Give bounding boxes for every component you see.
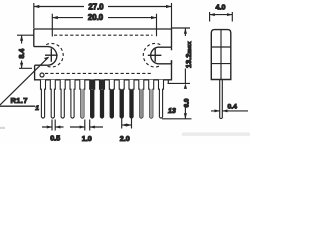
hidden hole circle right (dashed) bbox=[143, 43, 160, 67]
pin 8 bbox=[109, 80, 114, 118]
svg-text:20.0: 20.0 bbox=[88, 13, 104, 22]
pin 10 bbox=[129, 80, 134, 118]
side view pin bbox=[220, 80, 223, 119]
pin 5 bbox=[80, 80, 85, 118]
label 27.0 bbox=[88, 2, 104, 11]
body outline front view bbox=[34, 29, 172, 80]
pin 7 bbox=[100, 80, 105, 118]
svg-text:27.0: 27.0 bbox=[88, 2, 104, 11]
svg-text:13.2max: 13.2max bbox=[186, 41, 193, 68]
pin 1 bbox=[41, 80, 46, 118]
heatsink hidden bottom line (dashed) bbox=[45, 72, 153, 74]
svg-text:6.0: 6.0 bbox=[184, 98, 191, 107]
label 6.0 bbox=[184, 98, 191, 107]
svg-text:0.4: 0.4 bbox=[228, 104, 238, 111]
pin 11 bbox=[139, 80, 144, 118]
faint scan smudge bbox=[0, 127, 250, 136]
label 1.0 bbox=[82, 134, 92, 143]
side view center line bbox=[220, 30, 222, 80]
svg-text:8.4: 8.4 bbox=[19, 49, 26, 59]
pin 3 bbox=[60, 80, 65, 118]
svg-text:13: 13 bbox=[168, 108, 176, 115]
label 8.4 bbox=[19, 49, 26, 59]
label 13.2max bbox=[186, 41, 193, 68]
side view slot top line bbox=[211, 46, 231, 48]
pin 2 bbox=[50, 80, 55, 118]
hole center cross right bbox=[148, 49, 162, 62]
pin 1 label bbox=[35, 105, 39, 112]
right mounting slot bbox=[151, 47, 172, 64]
label 4.0 bbox=[216, 3, 226, 12]
hole center cross left bbox=[45, 49, 58, 62]
side view slot bottom line bbox=[211, 63, 231, 65]
dimension 27.0 bbox=[34, 3, 172, 29]
pin 9 bbox=[119, 80, 124, 118]
dimension 13.2 max bbox=[172, 28, 191, 119]
heatsink hidden top line (dashed) bbox=[54, 34, 153, 36]
dimension 1.0 bbox=[70, 120, 103, 131]
svg-text:0.5: 0.5 bbox=[50, 134, 60, 143]
pin 4 bbox=[70, 80, 75, 118]
dimension 0.4 bbox=[211, 109, 248, 112]
dimension 0.5 bbox=[42, 120, 64, 131]
label 0.4 bbox=[228, 104, 238, 111]
dimension 4.0 bbox=[210, 12, 233, 22]
pin 6 bbox=[90, 80, 95, 118]
pin 13 label bbox=[168, 108, 176, 115]
pin 12 bbox=[149, 80, 154, 118]
dimension 6.0 bbox=[162, 80, 192, 119]
svg-text:4.0: 4.0 bbox=[216, 3, 226, 12]
dimension 8.4 bbox=[17, 35, 34, 68]
pin 13 bbox=[159, 80, 164, 118]
svg-text:2.0: 2.0 bbox=[120, 134, 130, 143]
svg-text:1.0: 1.0 bbox=[82, 134, 92, 143]
dimension 2.0 bbox=[122, 117, 132, 129]
label 2.0 bbox=[120, 134, 130, 143]
label R1.7 with leader bbox=[0, 57, 49, 106]
label 0.5 bbox=[50, 134, 60, 143]
side view body bbox=[211, 30, 231, 80]
left mounting slot bbox=[34, 47, 57, 66]
small index circle bbox=[40, 73, 44, 77]
hidden hole circle left (dashed) bbox=[46, 43, 63, 67]
dimension 20.0 bbox=[52, 14, 156, 37]
svg-text:1: 1 bbox=[35, 105, 39, 112]
svg-text:R1.7: R1.7 bbox=[11, 96, 28, 105]
label 20.0 bbox=[88, 13, 104, 22]
